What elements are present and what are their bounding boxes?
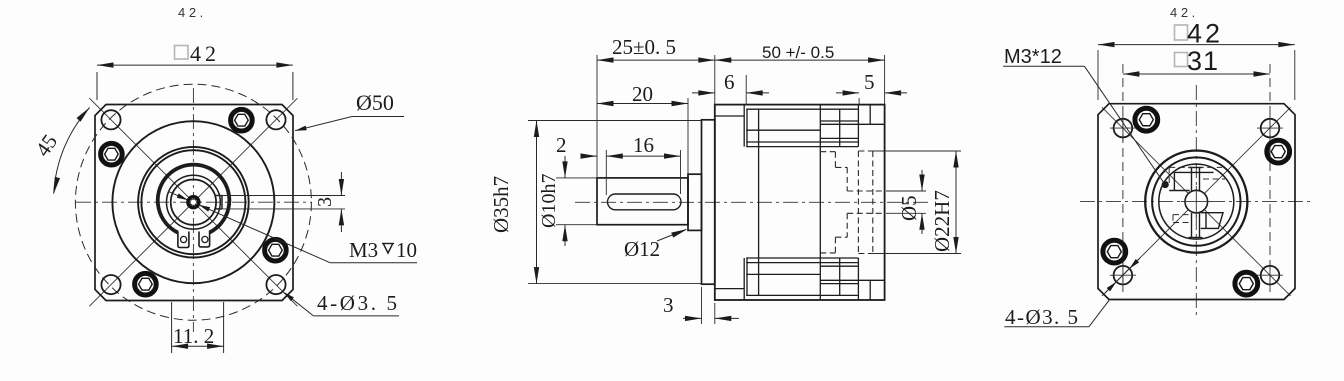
horizontal centerline <box>575 201 930 203</box>
svg-text:5: 5 <box>864 70 875 94</box>
svg-text:10: 10 <box>396 238 417 262</box>
svg-text:25±0. 5: 25±0. 5 <box>612 35 676 59</box>
motor mounting hole Ø3.5 top-right <box>1257 115 1283 141</box>
svg-text:3: 3 <box>314 197 336 207</box>
vertical centerline <box>192 88 194 332</box>
svg-text:42: 42 <box>1187 19 1220 49</box>
svg-text:Ø5: Ø5 <box>897 195 921 221</box>
hex socket screw bottom <box>135 273 157 295</box>
snap ring lug left <box>178 232 189 248</box>
horizontal centerline <box>76 201 312 203</box>
carrier internals: central key bar <box>1169 168 1223 238</box>
keyway slot on shaft <box>608 194 682 210</box>
svg-text:Ø12: Ø12 <box>624 237 660 261</box>
svg-text:Ø22H7: Ø22H7 <box>930 190 954 252</box>
svg-text:Ø35h7: Ø35h7 <box>489 176 513 233</box>
svg-text:11. 2: 11. 2 <box>173 324 214 348</box>
svg-text:45: 45 <box>30 130 62 161</box>
dimension Ø22H7 rear bore <box>870 150 961 152</box>
svg-text:6: 6 <box>724 70 735 94</box>
hex socket screw right <box>265 239 287 261</box>
mounting hole Ø3.5 bottom-right <box>266 275 285 294</box>
dimension square-31 rear <box>1123 73 1270 75</box>
snap ring body (heavy arc with gap at bottom) <box>158 165 230 233</box>
leader target dot on gear <box>1162 181 1169 188</box>
square flange outline rear <box>1098 104 1295 300</box>
dimension Ø5 motor shaft hole <box>886 190 926 192</box>
svg-text:2: 2 <box>556 133 567 157</box>
hex socket screw bottom-right <box>1235 272 1258 295</box>
carrier hidden lines dashes <box>1169 167 1225 222</box>
dimension square-42 rear <box>1097 50 1099 100</box>
dimension square-42 left view <box>96 72 98 100</box>
M3 tapped hole at shaft center <box>188 197 199 208</box>
housing internal horizontal lines bottom zone <box>746 294 858 296</box>
rear opening circle middle <box>1152 157 1240 245</box>
upper-left slot block <box>1174 171 1213 173</box>
Ø10 shaft circle <box>171 180 216 225</box>
hex socket screw left <box>101 143 123 165</box>
motor shaft hole Ø5 center <box>1185 190 1208 213</box>
diagonal centerline TL-BR <box>1102 107 1291 296</box>
mounting hole Ø3.5 top-right <box>266 110 285 129</box>
horizontal centerline <box>1080 201 1312 203</box>
dimension 45 degree arc <box>54 108 90 194</box>
svg-text:4 2 .: 4 2 . <box>178 5 203 20</box>
rear opening circle outer <box>1145 151 1247 253</box>
svg-text:42: 42 <box>190 41 216 66</box>
Ø35h7 pilot boss <box>702 120 715 284</box>
dimension 50 +/- 0.5 <box>884 55 886 105</box>
motor mounting hole Ø3.5 top-left <box>1110 115 1136 141</box>
housing boss circle <box>112 121 274 283</box>
svg-text:50 +/- 0.5: 50 +/- 0.5 <box>762 43 834 62</box>
housing internal horizontal lines top zone <box>715 105 885 300</box>
snap ring lug hole left <box>181 236 187 242</box>
svg-text:M3*12: M3*12 <box>1004 46 1062 68</box>
svg-text:Ø10h7: Ø10h7 <box>538 174 560 228</box>
dimension 25 +/- 0.5 <box>596 55 598 177</box>
square-31 dashed hole pattern line right <box>1269 64 1271 292</box>
svg-text:3: 3 <box>663 293 674 317</box>
lower-right block <box>1201 213 1223 229</box>
mounting hole Ø3.5 bottom-left <box>101 275 120 294</box>
dimension 3 boss protrusion <box>701 287 703 324</box>
bearing housing circle outer <box>138 147 249 258</box>
Ø12 groove circle <box>167 175 221 229</box>
svg-text:4-Ø3. 5: 4-Ø3. 5 <box>1005 305 1078 329</box>
diagonal centerline TR-BL <box>89 98 297 306</box>
housing internal vertical lines <box>743 105 745 147</box>
dimension 16 keyway length <box>680 150 682 194</box>
diagonal centerline TL-BR <box>89 98 297 306</box>
dimension 6 front plate <box>745 75 747 105</box>
tiny hex of center hole <box>190 199 197 205</box>
svg-text:31: 31 <box>1187 46 1218 76</box>
square flange outline <box>95 105 293 301</box>
vertical centerline <box>1195 85 1197 316</box>
svg-text:20: 20 <box>632 82 653 106</box>
output shaft <box>597 178 688 225</box>
bearing housing circle inner <box>141 150 245 254</box>
mounting hole Ø3.5 top-left <box>101 110 120 129</box>
motor mounting hole Ø3.5 bottom-right <box>1257 262 1283 288</box>
hex socket screw bottom-left <box>1103 240 1126 263</box>
dimension 5 rear plate <box>858 98 860 105</box>
snap ring lug hole right <box>202 236 208 242</box>
dimension Ø10h7 <box>556 177 597 179</box>
hex socket screw top <box>231 109 253 131</box>
dimension Ø35h7 <box>528 120 702 122</box>
housing outline <box>715 105 885 300</box>
hidden bore lines (dashed) <box>820 151 884 254</box>
keyway notch on shaft <box>215 195 222 197</box>
svg-text:16: 16 <box>633 133 654 157</box>
leader from M3 label to center hole with two arrows <box>200 205 330 263</box>
diagonal centerline TR-BL <box>1102 107 1291 296</box>
square-31 dashed hole pattern line left <box>1122 64 1124 292</box>
dimension 20 shaft length <box>687 98 689 174</box>
motor mounting hole Ø3.5 bottom-left <box>1110 262 1136 288</box>
rear opening circle inner <box>1159 164 1234 239</box>
dimension 11.2 bottom <box>171 302 173 353</box>
svg-text:4-Ø3. 5: 4-Ø3. 5 <box>317 291 397 315</box>
hex socket screw top-left <box>1135 108 1158 131</box>
dimension 3 keyway width <box>215 195 345 197</box>
Ø12 collar <box>688 174 702 230</box>
bolt circle Ø50 dashed <box>75 84 311 320</box>
snap ring lug right <box>199 232 210 247</box>
hex socket screw top-right <box>1267 140 1290 163</box>
svg-text:M3: M3 <box>349 238 378 262</box>
svg-text:Ø50: Ø50 <box>356 90 394 115</box>
dimension 2 keyway offset <box>605 150 607 195</box>
